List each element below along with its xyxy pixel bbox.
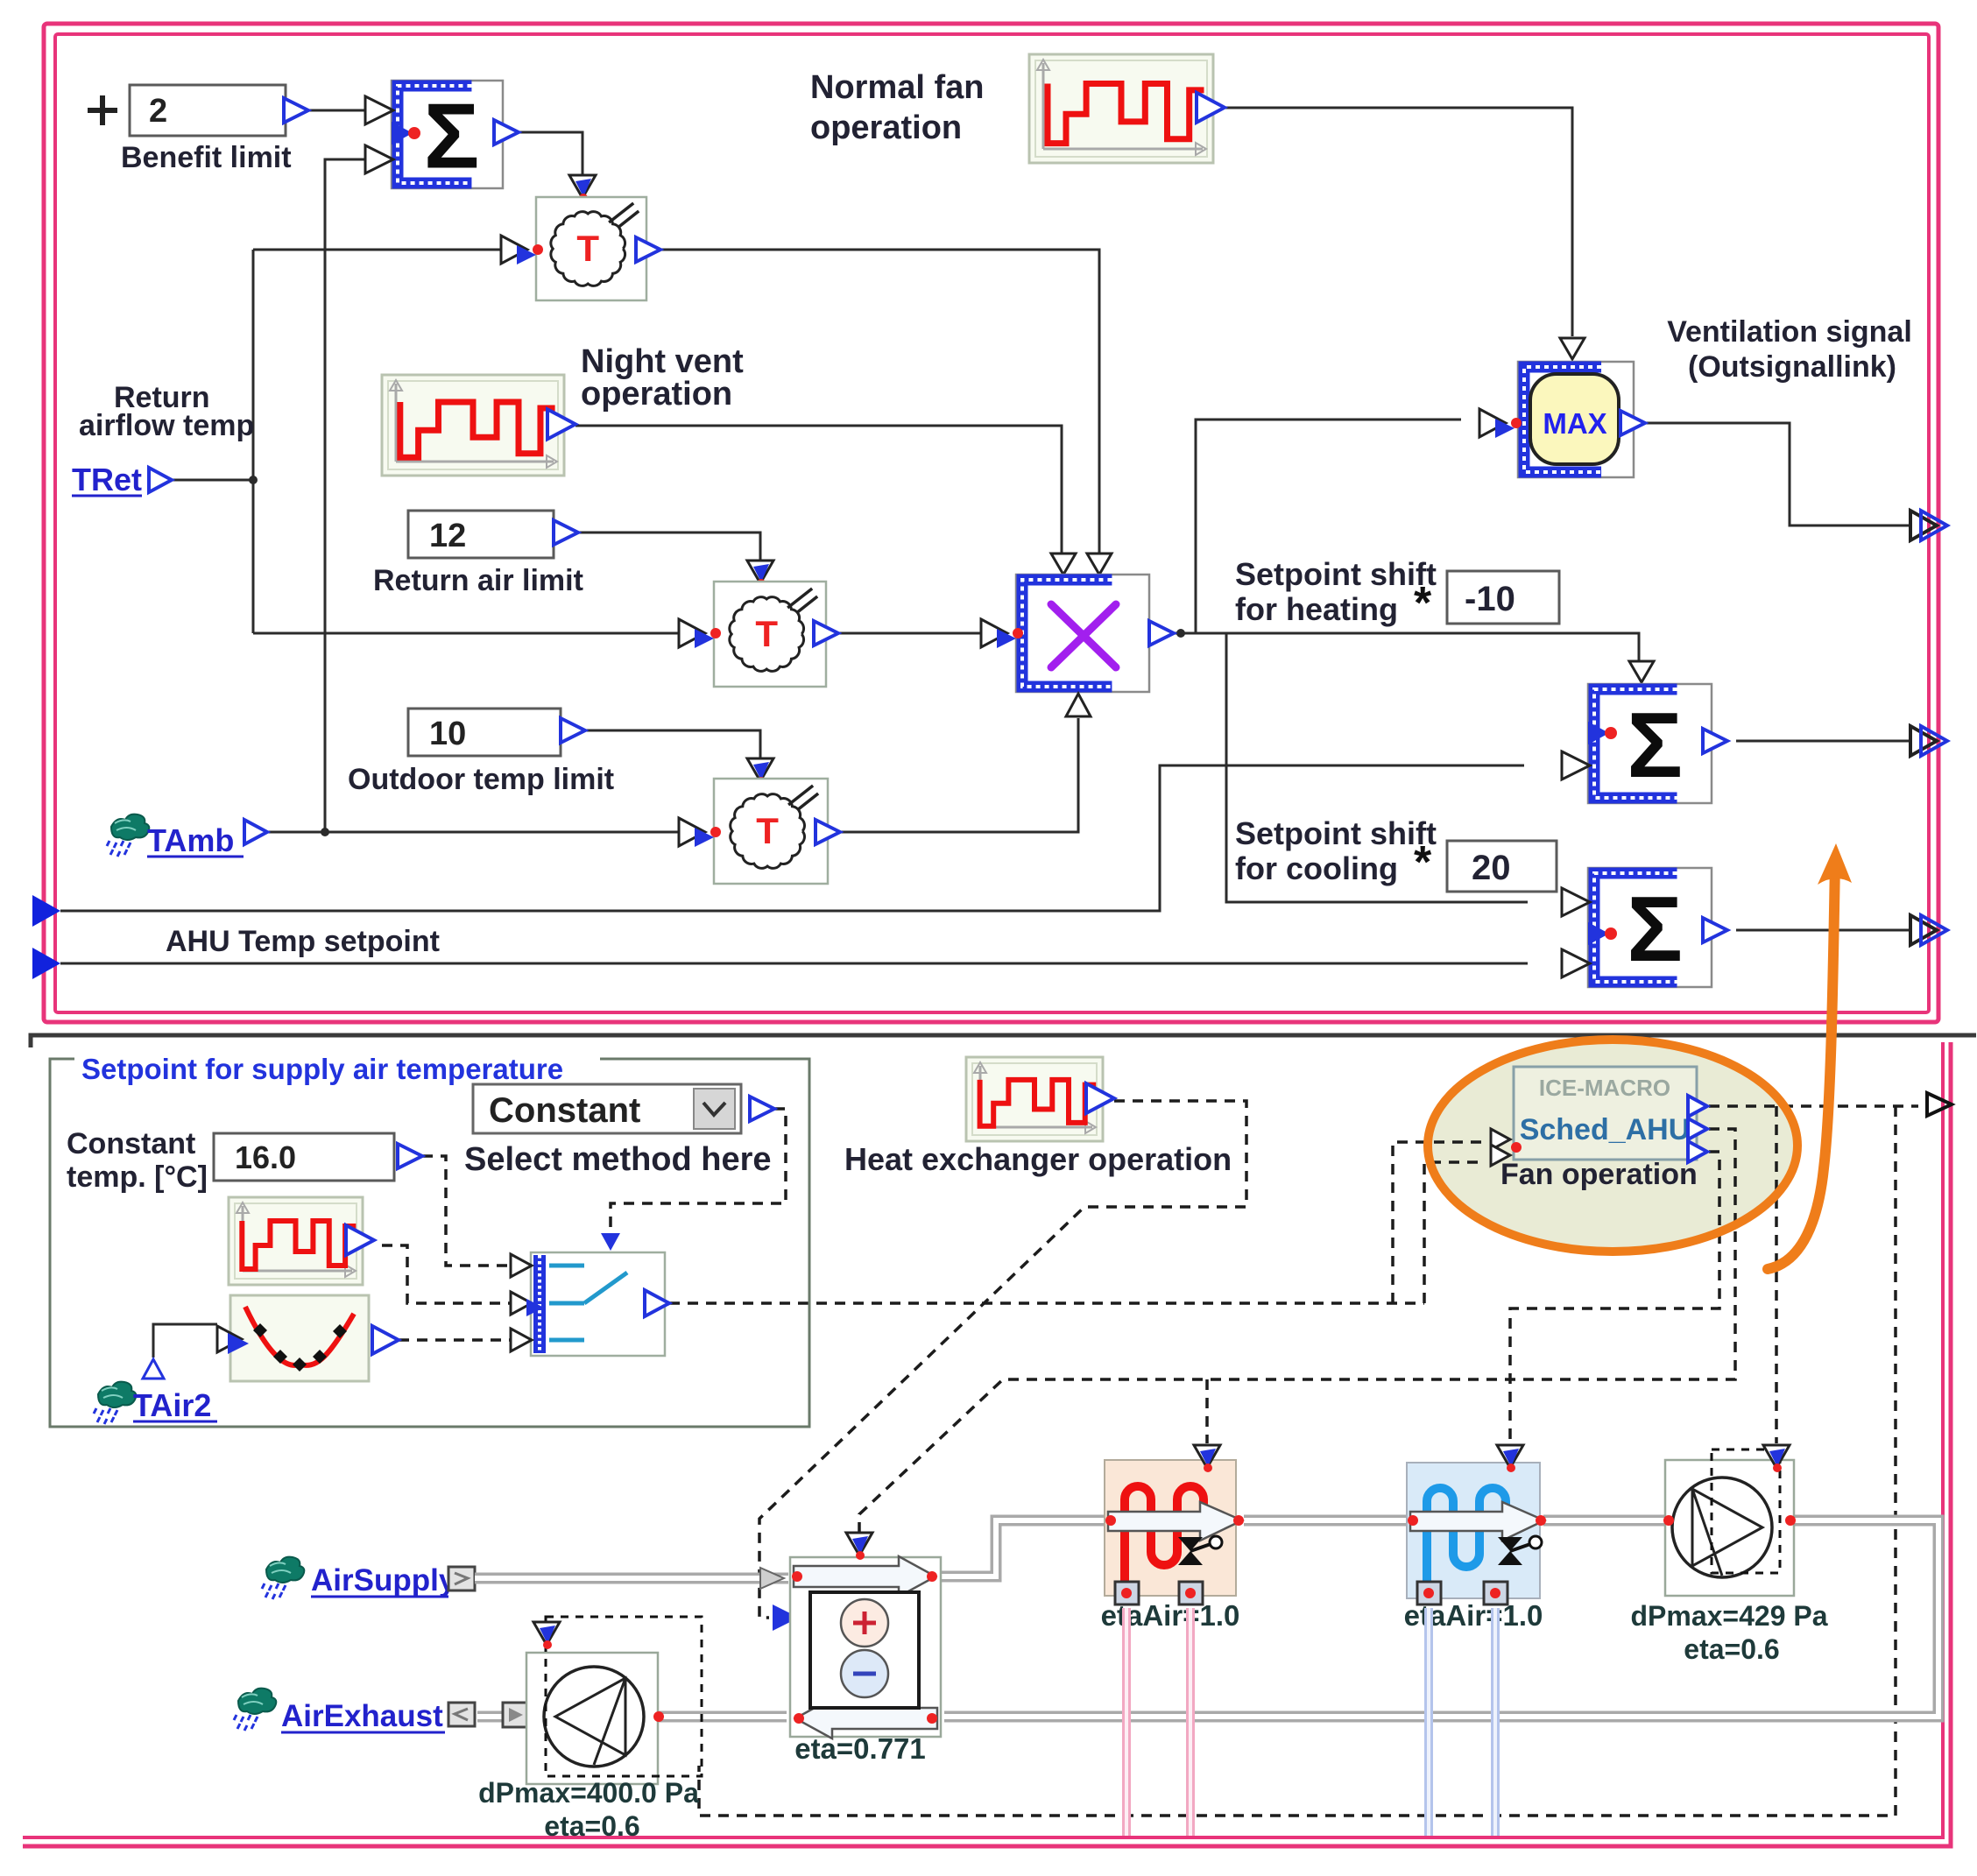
wire: X output up to MAX input: [1196, 420, 1461, 633]
AirExhaust boundary connector: [448, 1703, 535, 1727]
wire: constant 12 to T2 top input: [578, 532, 760, 561]
input link TAmb: [107, 815, 267, 858]
label Ventilation signal (Outsignallink): [1667, 315, 1912, 384]
group box Setpoint for supply air temperature: [50, 1049, 809, 1427]
wire: sum cooling output to border chevron: [1736, 929, 1910, 932]
dashed wire: method dropdown to selector control: [611, 1109, 786, 1228]
macro border top section (pink double frame): [44, 24, 1938, 1022]
supply fan (dPmax=429 Pa): [1663, 1445, 1796, 1596]
svg-text:Setpoint shift: Setpoint shift: [1235, 815, 1437, 851]
constant box -10: [1447, 571, 1559, 624]
label Constant temp C: [67, 1127, 208, 1194]
svg-text:T: T: [756, 810, 779, 851]
constant box 10 (Outdoor temp limit): [408, 709, 585, 756]
label eta=0.771: [794, 1732, 926, 1765]
svg-text:Setpoint for supply air temper: Setpoint for supply air temperature: [81, 1053, 563, 1085]
wire: T1 output to multiplier X top input 2: [660, 250, 1099, 554]
svg-text:Sched_AHU: Sched_AHU: [1520, 1113, 1691, 1146]
constant box 16.0: [214, 1133, 422, 1181]
label Fan operation: [1500, 1158, 1698, 1191]
T3 tprop block: [679, 758, 840, 884]
dashed wire: Sched_AHU output 3 to cooling coil: [1510, 1152, 1719, 1443]
label dPmax=400.0 Pa / eta=0.6: [478, 1777, 699, 1842]
label Outdoor temp limit: [348, 763, 614, 796]
AirSupply boundary connector: [448, 1567, 475, 1590]
multiplier block X: [981, 554, 1174, 716]
svg-text:*: *: [1414, 578, 1432, 629]
ICE-MACRO Sched_AHU block: [1491, 1067, 1707, 1166]
duct supply fan to border and down: [944, 1520, 1938, 1717]
label Night vent operation: [581, 343, 744, 413]
svg-text:AHU Temp setpoint: AHU Temp setpoint: [166, 925, 440, 958]
sum block U3 cooling setpoint: [1562, 868, 1727, 987]
svg-text:Constant: Constant: [489, 1091, 640, 1130]
schedule icon night vent operation: [382, 375, 575, 476]
input link AirExhaust: [234, 1689, 445, 1733]
dashed wire: Sched_AHU output 1 to border and supply fan: [1709, 1093, 1952, 1443]
svg-text:MAX: MAX: [1543, 407, 1606, 440]
svg-text:operation: operation: [581, 376, 732, 413]
svg-text:Return air limit: Return air limit: [373, 564, 583, 597]
schedule icon heat exchanger operation: [966, 1057, 1114, 1141]
input link AirSupply: [262, 1557, 456, 1599]
wire: night vent schedule to multiplier X top input 1: [575, 426, 1062, 554]
label Setpoint shift for cooling: [1235, 815, 1437, 888]
label etaAir=1.0 heating: [1101, 1599, 1240, 1632]
border chevron out ventilation signal: [1910, 511, 1947, 540]
wire: TAir2 to curve icon: [143, 1324, 217, 1379]
border chevron out heating setpoint: [1910, 726, 1947, 756]
dashed wire: feedback loop around AHU: [699, 1106, 1896, 1816]
svg-text:eta=0.771: eta=0.771: [794, 1732, 926, 1765]
schedule icon normal fan operation: [1029, 54, 1225, 163]
svg-text:20: 20: [1472, 849, 1511, 887]
svg-text:16.0: 16.0: [235, 1139, 296, 1175]
T2 tprop block: [679, 561, 838, 687]
wire: sum heating output to border chevron: [1736, 740, 1910, 743]
svg-text:Normal fan: Normal fan: [810, 69, 984, 106]
dashed wire: heat exchanger operation schedule to recovery unit: [759, 1101, 1246, 1631]
wire: sum U1 output to T1 top input: [516, 132, 583, 175]
exhaust duct fan to AirExhaust connector: [477, 1711, 529, 1723]
heat recovery unit (eta=0.771): [790, 1533, 941, 1738]
plus sign: [88, 95, 117, 125]
dropdown Constant (select method): [473, 1084, 774, 1133]
svg-text:AirExhaust: AirExhaust: [281, 1699, 443, 1733]
T1 tprop block: [501, 175, 660, 300]
svg-text:-10: -10: [1465, 580, 1515, 618]
wire: TRet bus to T1 input: [253, 249, 510, 251]
svg-text:airflow temp: airflow temp: [79, 409, 254, 442]
svg-text:eta=0.6: eta=0.6: [1684, 1633, 1779, 1665]
selector switch block: [511, 1233, 669, 1356]
input link TAir2: [94, 1382, 217, 1424]
svg-text:Heat exchanger operation: Heat exchanger operation: [844, 1141, 1232, 1177]
cooling coil (etaAir=1.0): [1407, 1445, 1546, 1604]
svg-text:T: T: [755, 613, 778, 654]
border chevron out cooling setpoint: [1910, 915, 1947, 945]
AHU temp setpoint entry arrows: [32, 895, 60, 979]
wire: TRet bus to T2 input: [253, 632, 688, 635]
wire: MAX output to border chevron: [1645, 423, 1910, 525]
wire: AHU temp setpoint line 1 to sum heating: [60, 765, 1524, 911]
input link TRet: [72, 462, 172, 497]
duct heating coil to cooling coil: [1244, 1515, 1410, 1527]
svg-text:Σ: Σ: [1627, 694, 1683, 797]
constant box 12 (Return air limit): [408, 511, 578, 558]
label dPmax=429 Pa / eta=0.6: [1630, 1600, 1827, 1665]
svg-text:Ventilation signal: Ventilation signal: [1667, 315, 1912, 349]
svg-text:eta=0.6: eta=0.6: [544, 1810, 639, 1842]
svg-text:10: 10: [429, 716, 466, 752]
svg-text:12: 12: [429, 518, 466, 554]
bottom section top border (dark): [31, 1035, 1976, 1047]
label AHU Temp setpoint: [166, 925, 440, 958]
svg-text:Σ: Σ: [424, 85, 480, 188]
label Return air limit: [373, 564, 583, 597]
orange highlight ellipse fill (Fan operation): [1428, 1040, 1797, 1252]
MAX block (Outsignallink): [1479, 338, 1645, 477]
dashed wire: selector output to Sched_AHU inputs: [669, 1142, 1484, 1303]
svg-text:TRet: TRet: [72, 462, 142, 497]
svg-text:Σ: Σ: [1627, 878, 1683, 981]
svg-text:operation: operation: [810, 109, 962, 146]
sum block U2 heating setpoint: [1562, 661, 1727, 803]
constant box 2 (Benefit limit): [130, 85, 308, 136]
heating coil (etaAir=1.0): [1105, 1445, 1244, 1604]
exhaust duct from heat exchanger to exhaust fan: [655, 1711, 787, 1723]
label Heat exchanger operation: [844, 1141, 1232, 1177]
svg-text:etaAir=1.0: etaAir=1.0: [1101, 1599, 1240, 1632]
duct cooling coil to supply fan: [1543, 1515, 1669, 1527]
piecewise curve icon: [217, 1295, 399, 1381]
label Normal fan operation: [810, 69, 984, 146]
svg-text:2: 2: [149, 93, 167, 130]
wire: constant 10 to T3 top input: [585, 730, 760, 758]
sum block U1: [365, 81, 519, 188]
svg-text:*: *: [1414, 837, 1432, 888]
svg-text:temp. [°C]: temp. [°C]: [67, 1160, 208, 1194]
label Return airflow temp: [79, 381, 254, 442]
svg-text:Constant: Constant: [67, 1127, 195, 1160]
wire: TAmb to T3 input: [267, 831, 689, 834]
svg-text:dPmax=429 Pa: dPmax=429 Pa: [1630, 1600, 1827, 1632]
dashed wire: Sched_AHU output 2 to heating coil and heat exchanger: [859, 1129, 1735, 1533]
wire: normal fan schedule to MAX top input: [1225, 108, 1572, 336]
label etaAir=1.0 cooling: [1404, 1599, 1543, 1632]
orange highlight ellipse stroke and arrow: [1428, 843, 1852, 1269]
svg-text:TAir2: TAir2: [133, 1387, 211, 1423]
label Benefit limit: [121, 141, 292, 174]
wire: T3 output up to multiplier X bottom input: [840, 718, 1078, 832]
svg-text:TAmb: TAmb: [147, 822, 234, 858]
label Select method here: [464, 1141, 772, 1178]
wire: benefit-limit constant to sum U1: [308, 109, 392, 112]
wire: multiplier X output bus: [1174, 629, 1639, 663]
svg-text:dPmax=400.0 Pa: dPmax=400.0 Pa: [478, 1777, 699, 1809]
wire: T2 output to multiplier X left input: [838, 632, 985, 635]
svg-text:Outdoor temp limit: Outdoor temp limit: [348, 763, 614, 796]
bottom section pink border: [23, 1042, 1951, 1846]
dashed wire: constant 16.0 to selector input 1: [422, 1156, 526, 1266]
svg-text:Fan operation: Fan operation: [1500, 1158, 1698, 1191]
supply duct heat exchanger to heating coil: [939, 1520, 1108, 1576]
schedule icon (setpoint group): [229, 1197, 374, 1285]
dashed wire: curve to selector input 3: [399, 1338, 526, 1342]
wire: TAmb bus vertical to sum U1 input 2: [321, 159, 392, 836]
svg-text:for cooling: for cooling: [1235, 850, 1398, 886]
svg-text:(Outsignallink): (Outsignallink): [1688, 350, 1896, 384]
hydronic risers cooling coil: [1429, 1608, 1495, 1836]
constant box 20: [1447, 841, 1557, 892]
hydronic risers heating coil: [1126, 1608, 1190, 1836]
svg-text:Night vent: Night vent: [581, 343, 744, 380]
exhaust fan (dPmax=400 Pa): [526, 1617, 702, 1784]
svg-text:AirSupply: AirSupply: [311, 1563, 456, 1597]
svg-text:Setpoint shift: Setpoint shift: [1235, 556, 1437, 592]
wire: AHU temp setpoint line 2 to sum cooling: [60, 963, 1528, 965]
svg-text:Select method here: Select method here: [464, 1141, 772, 1178]
supply air duct from connector to heat exchanger: [475, 1568, 788, 1589]
svg-text:Benefit limit: Benefit limit: [121, 141, 292, 174]
wire: X output down to sum U2 cooling input 1: [1226, 633, 1528, 902]
svg-text:for heating: for heating: [1235, 591, 1398, 627]
svg-text:ICE-MACRO: ICE-MACRO: [1539, 1075, 1670, 1101]
label Setpoint shift for heating: [1235, 556, 1437, 629]
dashed wire: schedule to selector input 2: [382, 1245, 526, 1303]
svg-text:T: T: [576, 228, 599, 269]
wire: TRet bus vertical: [172, 250, 258, 633]
